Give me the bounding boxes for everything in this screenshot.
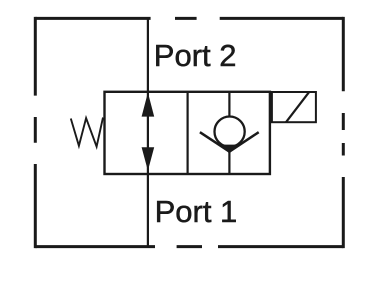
arrowhead down xyxy=(142,147,155,171)
wire: Port 1 line from valve to bottom border xyxy=(147,174,149,247)
spring W (bias spring, left) xyxy=(71,118,103,147)
arrowhead up xyxy=(142,93,155,117)
svg-text:Port 1: Port 1 xyxy=(155,194,238,229)
solenoid coil box xyxy=(272,92,316,122)
flow path shaft (left cell, open position) xyxy=(147,92,149,175)
check valve seat fill wedge xyxy=(222,145,237,154)
svg-text:Port 2: Port 2 xyxy=(154,38,237,73)
cartridge envelope dashed border: bottom edge xyxy=(35,245,343,248)
valve body envelope (two-position box) xyxy=(105,92,270,174)
wire: Port 2 line from top border to valve xyxy=(147,18,149,92)
check valve stem (bottom) xyxy=(228,152,230,174)
cartridge envelope dashed border: top edge xyxy=(35,17,343,20)
check valve seat (V) xyxy=(200,132,259,151)
check valve stem (top) xyxy=(228,92,230,117)
cartridge envelope dashed border: right edge xyxy=(342,17,345,248)
solenoid diagonal xyxy=(286,92,309,122)
check valve ball (circle) xyxy=(215,117,245,147)
cartridge envelope dashed border: left edge xyxy=(34,17,37,248)
valve position divider xyxy=(187,92,189,175)
